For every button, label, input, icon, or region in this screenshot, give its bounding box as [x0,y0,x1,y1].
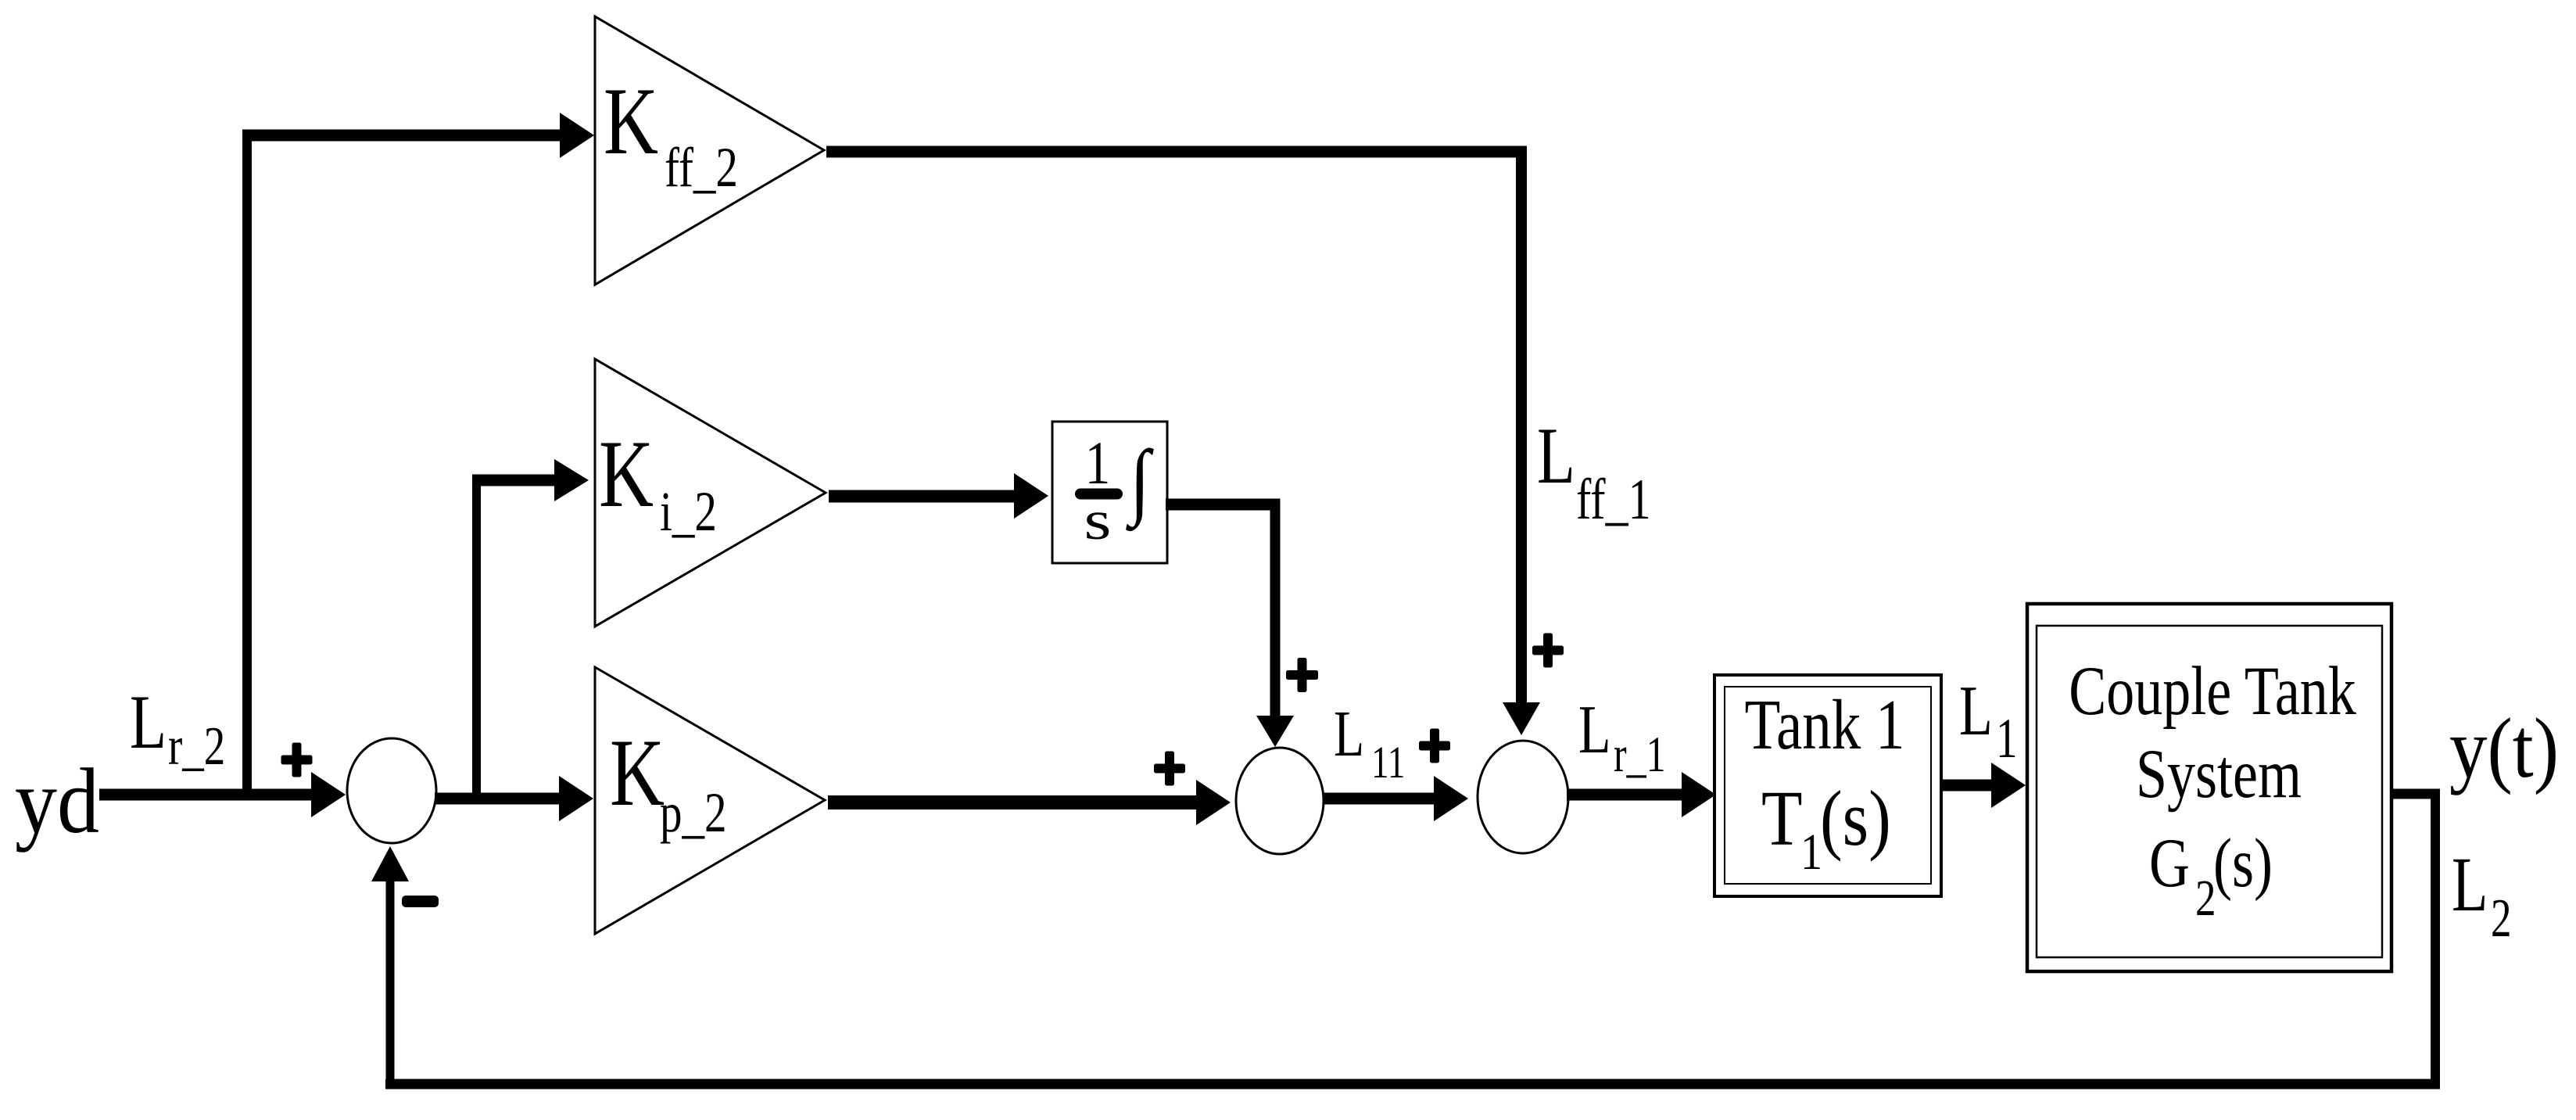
wire feedback bottom [385,1079,2440,1089]
node label L_1 [1959,671,2017,769]
plus sign at summing junction 1 [281,743,313,777]
wire yd input [99,772,346,817]
block Tank 1 T1(s) [1714,675,1941,896]
svg-text:G: G [2149,825,2190,902]
node label L_11 [1334,698,1405,788]
svg-text:T: T [1761,776,1803,863]
svg-text:ff_2: ff_2 [665,137,738,199]
wire Ki2 output to integrator [829,473,1048,519]
svg-text:i_2: i_2 [660,481,717,544]
svg-text:yd: yd [15,749,99,853]
node label L_r_2 [130,680,225,777]
integrator block 1/s [1052,422,1167,563]
svg-text:(s): (s) [2213,825,2273,902]
svg-text:ff_1: ff_1 [1576,468,1651,531]
plus sign into summing junction 3 left [1419,729,1450,763]
wire Kp2 output to summing junction 2 [828,780,1231,825]
wire Kff2 output to summing junction 3 [826,146,1540,736]
node label y(t) [2449,702,2559,796]
wire summing junction 3 to Tank 1 [1567,772,1716,817]
svg-text:System: System [2136,736,2302,813]
node label L_2 [2452,842,2511,948]
svg-text:L: L [1537,411,1575,501]
svg-text:y(t): y(t) [2449,702,2559,796]
amplifier gain Ki2 [595,359,826,626]
minus sign at summing junction 1 [402,896,439,907]
wire feedback up to summing junction 1 [371,846,409,1084]
wire branch up to Ki2 [472,459,589,800]
svg-text:s: s [1084,490,1112,551]
svg-text:K: K [604,67,658,174]
svg-text:1: 1 [1996,707,2017,770]
amplifier gain Kff2 [595,16,824,285]
wire summing junction 1 to Kp2 [435,776,593,821]
svg-text:Tank 1: Tank 1 [1744,685,1904,765]
summing junction 1 [347,738,436,843]
summing junction 3 [1478,741,1568,853]
node label L_r_1 [1578,691,1666,783]
wire branch up to Kff2 [242,113,594,800]
svg-text:K: K [610,719,665,826]
svg-text:L: L [1959,671,1993,750]
svg-text:r_1: r_1 [1614,727,1666,782]
svg-text:(s): (s) [1820,776,1891,863]
node label L_ff_1 [1537,411,1651,532]
svg-text:p_2: p_2 [660,782,726,845]
svg-text:Couple Tank: Couple Tank [2069,653,2356,730]
summing junction 2 [1236,748,1324,854]
svg-text:11: 11 [1371,738,1405,788]
svg-text:L: L [1578,691,1611,767]
wire summing junction 2 to summing junction 3 [1323,776,1468,821]
node yd input label [15,749,99,853]
svg-text:L: L [130,680,167,765]
plus sign integrator into summing junction 2 [1286,658,1318,692]
svg-text:2: 2 [2491,888,2511,948]
svg-text:r_2: r_2 [168,716,225,777]
wire Tank 1 to Couple Tank System [1940,763,2026,808]
block Couple Tank System G2(s) [2027,604,2391,971]
wire output y(t) feedback down [2390,789,2440,1089]
svg-text:L: L [2452,842,2488,928]
plus sign Kp2 into summing junction 2 [1154,752,1185,786]
wire integrator output to summing junction 2 [1166,499,1294,748]
svg-text:1: 1 [1085,429,1110,497]
svg-text:K: K [599,420,654,527]
plus sign into summing junction 3 top [1532,634,1564,668]
svg-text:L: L [1334,698,1364,770]
amplifier gain Kp2 [595,667,825,934]
svg-text:1: 1 [1800,824,1822,881]
